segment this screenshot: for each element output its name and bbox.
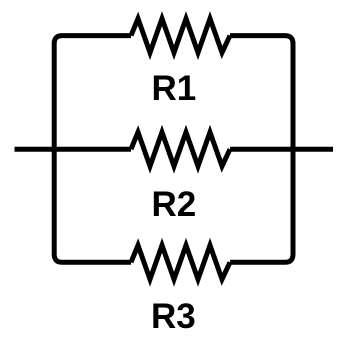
resistor R1: [131, 19, 230, 53]
resistor R3: [131, 245, 230, 279]
wire middle left (left terminal through left rail junction to R2): [15, 147, 132, 152]
wire right bracket (top-right corner, right rail, bottom-right corner): [230, 36, 293, 263]
label R3: [151, 297, 196, 337]
label R1: [152, 69, 197, 109]
label R2: [152, 185, 197, 225]
wire middle right (R2 through right rail junction to right terminal): [230, 147, 333, 152]
wire left bracket (top-left corner, left rail, bottom-left corner): [54, 36, 131, 263]
resistor R2: [131, 132, 230, 166]
